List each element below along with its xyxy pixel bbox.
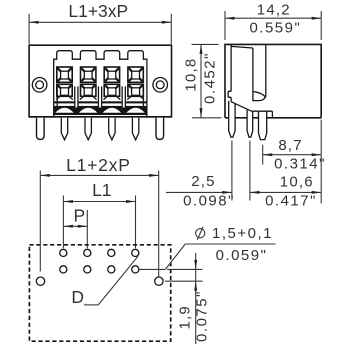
footprint hole row 2 [60, 266, 139, 273]
solder flange dark zone [54, 106, 147, 115]
center block outline with castellated top [54, 51, 147, 117]
svg-text:10,8: 10,8 [182, 58, 199, 92]
dome pole 1 [54, 107, 75, 113]
footprint peg hole right [155, 277, 163, 285]
dome pole 3 [101, 107, 122, 113]
dimension L1+3xP [29, 1, 171, 44]
svg-text:L1+3xP: L1+3xP [68, 1, 128, 21]
dimension L1 [63, 180, 135, 248]
connector front view body [29, 45, 171, 117]
pedestal trapezoids under squares [56, 96, 144, 99]
svg-text:0.098": 0.098" [183, 193, 235, 210]
step line [252, 110, 273, 112]
pole divider bars [57, 86, 143, 107]
svg-text:10,6: 10,6 [280, 173, 314, 190]
svg-text:2,5: 2,5 [191, 173, 215, 190]
flange screw hole right [153, 78, 168, 93]
dimension 10,6 / 0.417" [250, 173, 321, 209]
solder pin 4 [132, 118, 138, 140]
solder pin 2 [85, 118, 91, 140]
svg-text:L1+2xP: L1+2xP [66, 155, 131, 175]
solder pin 3 [109, 118, 115, 140]
svg-text:0.559": 0.559" [249, 19, 301, 36]
pole 3 clamp squares [104, 67, 119, 96]
side view top recess line [231, 46, 253, 48]
step vertical [271, 111, 273, 118]
svg-text:1,5+0,1: 1,5+0,1 [212, 225, 273, 242]
mount peg right [156, 118, 164, 140]
solder flange band upper [54, 101, 147, 103]
svg-text:P: P [73, 205, 85, 225]
leader D [71, 256, 138, 307]
footprint hole row 1 [60, 249, 139, 256]
side pin row B [229, 101, 235, 137]
dome pole 4 [125, 107, 146, 113]
svg-text:0.314": 0.314" [274, 155, 326, 172]
side pin row A [247, 109, 253, 137]
svg-text:8,7: 8,7 [278, 137, 302, 154]
svg-text:D: D [71, 287, 84, 307]
svg-text:0.059": 0.059" [216, 247, 268, 264]
dimension 2,5 / 0.098" [166, 141, 250, 210]
dimension 14,2 / 0.559" [225, 1, 321, 40]
leader diameter label [140, 225, 276, 270]
sloped bottom edge [231, 102, 251, 112]
svg-text:14,2: 14,2 [257, 1, 291, 18]
svg-text:0.075": 0.075" [193, 290, 210, 342]
body bottom edge [29, 116, 171, 118]
footprint peg hole left [36, 277, 44, 285]
pole 4 clamp squares [128, 67, 143, 96]
dimension 1,9 / 0.075" [165, 253, 210, 344]
svg-text:0.417": 0.417" [265, 192, 317, 209]
side solder pin large [259, 111, 267, 139]
mount peg left [37, 118, 45, 140]
footprint outline dashed [29, 245, 170, 341]
pole 2 clamp squares [81, 67, 96, 96]
dimension 10,8 / 0.452" [182, 44, 221, 117]
svg-text:1,9: 1,9 [176, 305, 193, 329]
solder pin 1 [61, 118, 67, 140]
contact slot [253, 44, 266, 100]
dome pole 2 [78, 107, 99, 113]
dimension L1+2xP [40, 155, 158, 277]
white strip above bottom edge [55, 115, 146, 117]
pole 1 clamp squares [57, 67, 72, 96]
dimension 8,7 / 0.314" [263, 120, 326, 204]
side view inner front wall [230, 44, 232, 101]
svg-text:L1: L1 [92, 180, 111, 200]
dimension P [63, 205, 87, 248]
side view body outline [225, 44, 321, 117]
latch bump [228, 91, 231, 97]
svg-text:0.452": 0.452" [202, 52, 219, 104]
flange screw hole left [32, 78, 47, 93]
